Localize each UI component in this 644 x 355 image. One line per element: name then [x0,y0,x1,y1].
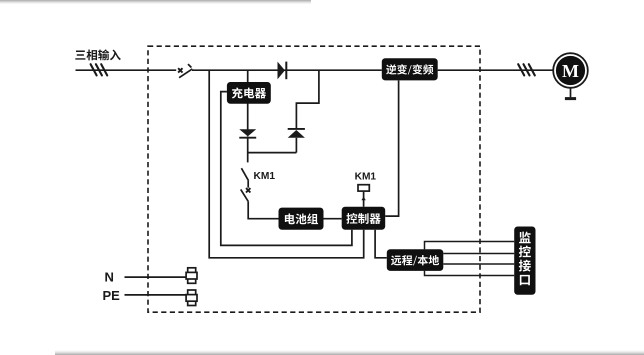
wire charger left lead and inner return loop to controller [221,92,352,246]
wire remote/local to monitor line 1 [425,242,515,250]
wire charger branch drop from main line [247,70,249,129]
wire below diode D1 [247,136,249,162]
diode D2 on main line (blocking, cathode right) [278,62,287,80]
wire remote/local to monitor line 4 [425,271,515,276]
contactor coil KM1 [358,185,369,207]
terminal N [186,268,197,284]
svg-text:M: M [562,61,579,81]
wire controller to remote/local [375,230,387,258]
svg-text:KM1: KM1 [355,172,377,183]
three-phase slash marks (left) [91,64,108,75]
wire N line [125,276,187,278]
wire contact to battery [248,202,278,219]
wire battery to controller [324,218,342,220]
wire remote/local to monitor line 3 [443,263,514,265]
controller box 控制器 [342,207,386,230]
diode D3 bypass (cathode up) [288,129,305,138]
wire below diode D3 [295,138,297,153]
wire motor ground stem [570,88,572,98]
charger box 充电器 [227,82,271,104]
motor M [553,53,588,88]
wire bypass branch from main line [296,70,319,129]
terminal PE [186,290,197,306]
diode D1 charger output (cathode down) [239,129,256,138]
wire main line right segment [438,69,553,71]
net label three-phase input 三相输入 [75,49,120,60]
dashed enclosure boundary [148,46,480,312]
remote/local box 远程/本地 [387,249,444,271]
wire node A drop and outer return loop to controller [209,70,364,258]
three-phase slash marks (right, motor feed) [518,64,535,75]
svg-text:PE: PE [103,288,121,303]
inverter box 逆变/变频 [382,58,438,80]
wire junction joining diode branches [248,152,297,154]
svg-text:KM1: KM1 [254,171,276,182]
ground (motor earth bar) [565,97,576,100]
wire inverter to controller [385,80,398,216]
circuit breaker QF on main line [178,64,192,78]
battery box 电池组 [279,208,324,230]
monitor interface box 监控接口 [514,227,535,295]
svg-text:N: N [105,270,114,285]
wire PE line [125,294,187,296]
wire main line middle segment [192,69,382,71]
wire remote/local to monitor line 2 [443,253,514,255]
contactor main contact KM1 [241,168,251,202]
wire main line left segment [76,69,177,71]
